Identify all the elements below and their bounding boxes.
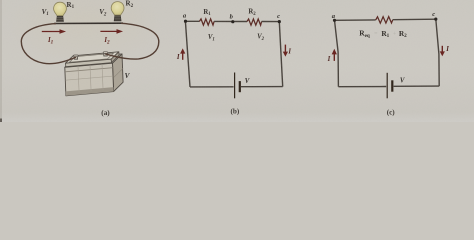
current arrow I1 (a) bbox=[42, 29, 66, 34]
lamp R1 (a) glass bulb bbox=[54, 2, 67, 15]
wire bottom right segment (b) bbox=[241, 86, 283, 88]
battery terminal post left (a) bbox=[74, 55, 79, 59]
battery V (c) long plate bbox=[386, 73, 388, 99]
wire bottom right segment (c) bbox=[394, 85, 440, 87]
battery V (c) short plate bbox=[391, 80, 393, 91]
wire top right segment (c) bbox=[393, 18, 436, 21]
battery V (a) 3D body bbox=[65, 54, 123, 96]
current arrow I up left side (b) bbox=[180, 48, 185, 59]
resistor Req (c) bbox=[376, 17, 393, 24]
node a (b) bbox=[184, 20, 187, 23]
wire top left segment (c) bbox=[335, 19, 376, 21]
node a (c) bbox=[333, 19, 336, 22]
lamp R1 (a) socket base bbox=[57, 16, 64, 22]
paper grain overlay bbox=[0, 0, 1, 1]
current arrow I down right side (c) bbox=[440, 46, 445, 56]
wire right side (b) bbox=[279, 22, 282, 87]
battery V (b) long plate bbox=[234, 73, 236, 99]
lamp R2 (a) socket base bbox=[114, 15, 121, 21]
wire segment R2 to c (b) bbox=[262, 21, 280, 23]
current arrow I down right side (b) bbox=[283, 45, 288, 57]
resistor R2 (b) bbox=[247, 19, 262, 25]
battery terminal post right (a) bbox=[103, 52, 108, 56]
wire bottom left segment (b) bbox=[190, 86, 234, 88]
wire top segment through lamps (a) bbox=[54, 22, 123, 24]
wire left side (b) bbox=[185, 21, 190, 87]
wire top segment a to R1 (b) bbox=[185, 20, 199, 22]
wire right arc loop (a) bbox=[105, 23, 159, 59]
node c (b) bbox=[278, 20, 281, 23]
wire left arc loop (a) bbox=[21, 24, 76, 64]
wire right side (c) bbox=[436, 19, 439, 86]
wire segment R1 to R2 (b) bbox=[214, 20, 247, 22]
label Req = R1 + R2 (c) bbox=[359, 29, 407, 40]
page background bbox=[0, 0, 474, 122]
wire bottom left segment (c) bbox=[338, 86, 386, 88]
current arrow I2 (a) bbox=[100, 29, 123, 34]
node b (b) bbox=[231, 20, 234, 23]
resistor R1 (b) bbox=[199, 19, 214, 25]
wire left side (c) bbox=[335, 20, 339, 86]
lamp R2 (a) glass bulb bbox=[111, 2, 124, 15]
battery V (b) short plate bbox=[239, 81, 241, 92]
current arrow I up left side (c) bbox=[332, 49, 337, 61]
node c (c) bbox=[434, 18, 437, 21]
battery lid (a) bbox=[66, 52, 120, 67]
